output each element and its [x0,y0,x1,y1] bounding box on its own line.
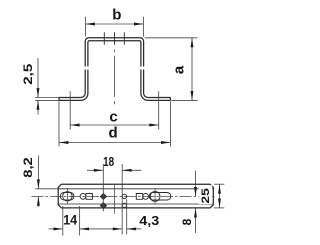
cross-section inner contour [59,70,88,101]
dimension a arrows [191,38,194,47]
dimension c arrows [70,124,79,127]
dimension 2,5 arrows [37,88,40,97]
dimension 2,5 extension lines [35,97,59,99]
svg-text:25: 25 [200,188,212,204]
dimension 8 arrows [194,187,197,196]
mask behind label 25 [199,185,213,204]
dimension d arrows [59,141,68,144]
svg-text:2,5: 2,5 [23,63,35,85]
dimension 14 line [49,228,63,230]
vertical centerline of section [113,32,115,44]
dimension a extension lines [145,37,198,39]
dimension 25 extension lines [214,183,224,185]
dimension 8 leader lines [195,171,197,197]
dimension 8,2 arrows [37,179,40,188]
dimension b line [85,23,143,25]
dimension a line [191,38,193,101]
dimension c line [70,124,159,126]
round hole lower [122,203,126,207]
right small slot [143,194,149,200]
dimension 18 line [87,169,103,171]
dimension 4,3 arrows [113,227,122,230]
svg-text:4,3: 4,3 [139,213,159,228]
dimension b arrows [85,23,94,26]
plate upper bend line [58,188,213,190]
left slot screw circle [63,192,72,201]
square hole lower [100,203,106,209]
svg-text:18: 18 [103,154,114,169]
left slot vertical centerline [66,188,68,204]
flange left end edge [58,98,60,101]
flange right end edge [169,98,171,101]
left slot obround [60,193,74,201]
svg-text:8,2: 8,2 [23,157,35,178]
top-hat rail cross-section outer contour [59,70,85,98]
svg-text:8: 8 [180,218,194,225]
dimension 4,3 extension line right [126,199,128,234]
svg-text:14: 14 [63,213,77,228]
dimension 18 extension lines [102,164,104,211]
dimension 2,5 leader lines [37,58,39,98]
dimension d extension lines [58,101,60,146]
square hole upper [100,193,106,199]
dimension c extension lines [69,91,71,129]
round hole upper [122,194,126,198]
plate lower bend line [58,203,213,205]
right slot vertical centerline [154,188,156,204]
dimension 14 extension lines [62,206,64,236]
plate outline with chamfered corners [58,184,213,208]
dimension b extension lines [84,17,86,37]
upper bend line extension for 8,2 [35,188,58,190]
dimension 4,3 line [127,228,142,230]
dimension d line [59,142,170,144]
dimension 8,2 leader lines [37,156,39,189]
hole tick left [103,32,105,44]
svg-text:c: c [109,109,117,126]
pattern symmetry line [113,185,115,214]
right slot screw circle [150,192,160,202]
dimension 25 arrows [218,184,221,193]
plate horizontal centerline [32,195,216,197]
dimension 14 arrows [53,227,62,230]
dimension 25 line [219,184,221,208]
dimension 18 arrows [94,169,103,172]
left small slot [80,194,86,200]
svg-text:a: a [171,65,188,74]
svg-text:d: d [109,124,118,141]
svg-text:b: b [112,6,121,23]
right slot obround [149,193,171,201]
hole tick right [123,32,125,44]
